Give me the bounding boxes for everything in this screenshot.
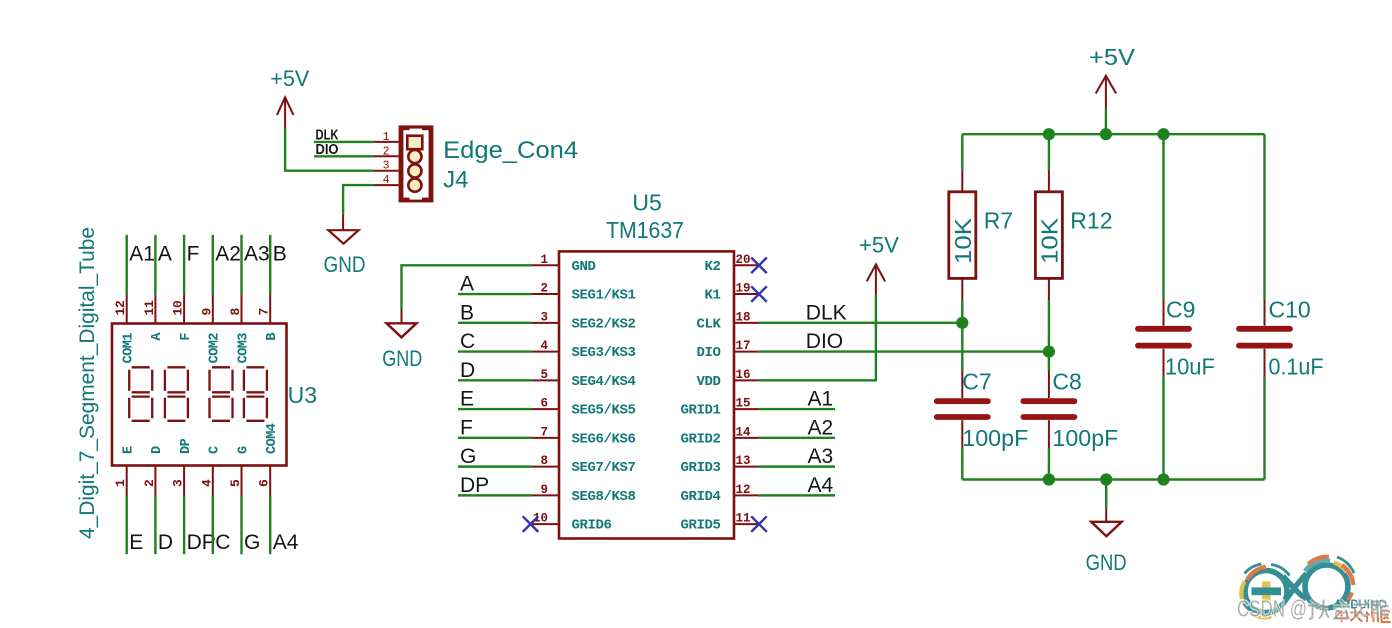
U5 pin 19 (K1) <box>734 293 759 295</box>
U3 7-segment digit 4 <box>244 367 267 421</box>
svg-text:3: 3 <box>540 310 548 324</box>
svg-text:2: 2 <box>142 479 157 487</box>
svg-text:4: 4 <box>199 479 214 487</box>
svg-text:10K: 10K <box>950 217 976 264</box>
resistor R12 10K <box>1048 170 1050 192</box>
U5 pin 7 (SEG6/KS6) <box>532 437 560 439</box>
wire +5V to J4 pin 3 <box>285 128 373 171</box>
svg-text:C8: C8 <box>1052 369 1081 395</box>
U5 pin 20 (K2) <box>734 264 759 266</box>
junction on top rail at +5V <box>1100 128 1112 140</box>
svg-text:12: 12 <box>113 300 128 316</box>
capacitor C8 100pF <box>1048 371 1050 399</box>
junction bottom rail at GND <box>1100 473 1112 485</box>
svg-text:18: 18 <box>736 310 751 324</box>
wire top rail to resistor R12 <box>1048 134 1050 170</box>
wire net DIO to J4 pin 2 <box>314 155 373 157</box>
U3 7-segment digit 2 <box>165 367 188 421</box>
svg-text:Edge_Con4: Edge_Con4 <box>443 137 578 164</box>
svg-text:GRID3: GRID3 <box>680 460 720 476</box>
J4 pin 4 <box>373 184 398 186</box>
wire top +5V rail <box>962 133 1264 135</box>
svg-text:DIO: DIO <box>696 345 720 361</box>
svg-text:SEG4/KS4: SEG4/KS4 <box>572 374 636 390</box>
power symbol +5V top right <box>1105 76 1107 109</box>
svg-text:16: 16 <box>736 368 751 382</box>
wire C10 to bottom rail <box>1263 377 1265 480</box>
wire C9 to bottom rail <box>1162 377 1164 480</box>
connector J4 body <box>401 128 431 200</box>
svg-text:1: 1 <box>113 479 128 487</box>
svg-text:A2: A2 <box>808 416 834 439</box>
svg-text:10uF: 10uF <box>1165 354 1215 380</box>
Arduino community logo plus sign <box>1262 582 1270 602</box>
svg-text:E: E <box>122 446 137 454</box>
U5 pin 17 (DIO) <box>734 351 759 353</box>
svg-text:C7: C7 <box>962 369 991 395</box>
svg-text:GND: GND <box>572 259 596 275</box>
U5 pin 11 (GRID5) <box>734 523 759 525</box>
Arduino community logo right loop <box>1305 556 1354 608</box>
no-connect U5 pin 19 <box>751 286 767 302</box>
ground symbol bottom right <box>1105 480 1107 510</box>
svg-text:C: C <box>215 531 230 554</box>
svg-text:1: 1 <box>540 253 548 267</box>
U5 pin 1 (GND) <box>532 264 560 266</box>
U5 pin 3 (SEG2/KS2) <box>532 322 560 324</box>
svg-text:D: D <box>158 531 173 554</box>
svg-text:GND: GND <box>1086 550 1127 575</box>
J4 pin 2 <box>373 155 398 157</box>
svg-text:B: B <box>460 301 474 324</box>
ground symbol below J4 <box>342 214 344 230</box>
svg-text:+5V: +5V <box>1089 44 1136 70</box>
resistor R7 10K <box>961 170 963 192</box>
svg-text:SEG2/KS2: SEG2/KS2 <box>572 316 636 332</box>
U3 pin 3 (DP) bottom <box>183 466 185 496</box>
wire net F to U3 pin 10 <box>183 235 185 295</box>
svg-text:J4: J4 <box>443 167 468 194</box>
svg-text:K1: K1 <box>704 288 720 304</box>
U3 pin 2 (D) bottom <box>154 466 156 496</box>
svg-text:U5: U5 <box>632 189 661 215</box>
svg-text:DIO: DIO <box>316 142 339 158</box>
svg-text:17: 17 <box>736 339 751 353</box>
svg-text:TM1637: TM1637 <box>606 217 684 243</box>
svg-text:1: 1 <box>383 131 390 144</box>
wire net C from U3 pin 4 <box>212 496 214 555</box>
svg-text:DP: DP <box>460 474 489 497</box>
U5 pin 12 (GRID4) <box>734 494 759 496</box>
display U3 body <box>112 324 287 466</box>
svg-text:3: 3 <box>171 479 186 487</box>
U3 pin 8 (COM3) top <box>241 295 243 324</box>
svg-text:R12: R12 <box>1070 207 1112 233</box>
svg-text:3: 3 <box>383 160 390 173</box>
wire U5 VDD pin 16 to +5V <box>759 295 876 381</box>
ground symbol for U5 pin 1 <box>401 309 403 323</box>
svg-text:4: 4 <box>540 339 548 353</box>
svg-text:CLK: CLK <box>696 316 721 332</box>
wire U5 pin 1 to GND <box>402 265 532 309</box>
svg-text:12: 12 <box>736 483 751 497</box>
svg-text:11: 11 <box>142 300 157 316</box>
wire top rail to C10 <box>1263 134 1265 299</box>
J4 pin 1 <box>373 141 398 143</box>
U3 pin 6 (COM4) bottom <box>269 466 271 496</box>
J4 pad pin 4 (circle) <box>408 179 421 192</box>
U3 pin 12 (COM1) top <box>126 295 128 324</box>
wire bottom GND rail <box>962 478 1264 480</box>
svg-text:C9: C9 <box>1166 296 1195 322</box>
svg-text:F: F <box>187 243 200 266</box>
wire net A1 to U3 pin 12 <box>125 235 127 295</box>
U3 7-segment digit 3 <box>210 367 233 421</box>
junction DLK at R7/C7 <box>956 317 968 329</box>
svg-text:DIO: DIO <box>806 330 843 353</box>
wire net DIO from U5 DIO pin 17 <box>759 350 1049 352</box>
wire net DLK to J4 pin 1 <box>314 141 373 143</box>
junction on top rail at C9 <box>1157 128 1169 140</box>
svg-text:A4: A4 <box>273 531 299 554</box>
svg-text:14: 14 <box>736 425 752 439</box>
wire net E from U3 pin 1 <box>125 496 127 555</box>
svg-text:DP: DP <box>187 531 216 554</box>
wire net A1 from U5 pin 15 <box>759 408 836 410</box>
svg-text:5: 5 <box>228 479 243 487</box>
wire net B to U5 pin 3 <box>458 322 532 324</box>
svg-text:4_Digit_7_Segment_Digital_Tube: 4_Digit_7_Segment_Digital_Tube <box>76 227 99 539</box>
svg-text:11: 11 <box>736 512 751 526</box>
wire net DP from U3 pin 3 <box>183 496 185 555</box>
svg-text:15: 15 <box>736 397 751 411</box>
svg-text:7: 7 <box>540 425 548 439</box>
svg-text:100pF: 100pF <box>962 425 1028 451</box>
wire net A2 to U3 pin 9 <box>212 235 214 295</box>
svg-text:R7: R7 <box>984 207 1013 233</box>
svg-text:10K: 10K <box>1036 217 1062 264</box>
svg-text:SEG8/KS8: SEG8/KS8 <box>572 489 636 505</box>
svg-text:+5V: +5V <box>859 233 899 258</box>
junction bottom rail at C8 <box>1043 473 1055 485</box>
J4 pin 3 <box>373 170 398 172</box>
svg-text:A4: A4 <box>808 474 834 497</box>
wire R12 to DIO junction <box>1048 300 1050 351</box>
svg-text:GRID6: GRID6 <box>572 518 612 534</box>
wire net F to U5 pin 7 <box>458 437 532 439</box>
svg-text:A1: A1 <box>808 388 834 411</box>
svg-text:F: F <box>460 416 473 439</box>
J4 pad pin 2 (circle) <box>408 150 421 163</box>
svg-text:K2: K2 <box>704 259 720 275</box>
junction DIO at R12/C8 <box>1043 345 1055 357</box>
wire net D from U3 pin 2 <box>154 496 156 555</box>
svg-text:CSDN @: CSDN @ <box>1237 596 1307 622</box>
svg-text:SEG7/KS7: SEG7/KS7 <box>572 460 636 476</box>
svg-text:COM4: COM4 <box>265 423 280 454</box>
svg-text:6: 6 <box>257 479 272 487</box>
U5 pin 10 (GRID6) <box>532 523 560 525</box>
wire net DP to U5 pin 9 <box>458 494 532 496</box>
svg-text:GRID5: GRID5 <box>680 518 720 534</box>
wire DLK junction down to C7 <box>961 323 963 371</box>
wire net E to U5 pin 6 <box>458 408 532 410</box>
U3 pin 4 (C) bottom <box>212 466 214 496</box>
wire net A to U5 pin 2 <box>458 293 532 295</box>
wire net A to U3 pin 11 <box>154 235 156 295</box>
svg-text:GRID1: GRID1 <box>680 403 720 419</box>
U5 pin 14 (GRID2) <box>734 437 759 439</box>
junction on top rail at R12 <box>1043 128 1055 140</box>
svg-text:GRID2: GRID2 <box>680 431 720 447</box>
wire DIO junction down to C8 <box>1048 352 1050 371</box>
svg-text:COM2: COM2 <box>208 333 223 364</box>
wire top rail to C9 <box>1162 134 1164 299</box>
svg-text:B: B <box>265 333 280 341</box>
wire C7 to bottom rail <box>961 448 963 480</box>
no-connect U5 pin 11 <box>751 516 767 532</box>
svg-text:DP: DP <box>179 438 194 454</box>
U5 pin 2 (SEG1/KS1) <box>532 293 560 295</box>
svg-text:SEG5/KS5: SEG5/KS5 <box>572 403 636 419</box>
wire net B to U3 pin 7 <box>269 235 271 295</box>
svg-text:DLK: DLK <box>806 301 847 324</box>
svg-text:A2: A2 <box>215 243 241 266</box>
svg-text:C10: C10 <box>1269 296 1311 322</box>
junction bottom rail at C9 <box>1157 473 1169 485</box>
svg-text:VDD: VDD <box>696 374 720 390</box>
svg-text:GRID4: GRID4 <box>680 489 720 505</box>
U5 pin 9 (SEG8/KS8) <box>532 494 560 496</box>
capacitor C7 100pF <box>961 371 963 399</box>
svg-text:2: 2 <box>383 145 390 158</box>
svg-text:F: F <box>179 333 194 341</box>
svg-text:20: 20 <box>736 253 751 267</box>
svg-text:COM3: COM3 <box>236 333 251 364</box>
U3 pin 5 (G) bottom <box>241 466 243 496</box>
svg-text:5: 5 <box>540 368 548 382</box>
U3 pin 1 (E) bottom <box>126 466 128 496</box>
no-connect U5 pin 10 <box>523 516 539 532</box>
wire net G to U5 pin 8 <box>458 465 532 467</box>
wire J4 pin 4 to GND <box>343 185 373 214</box>
svg-text:E: E <box>129 531 143 554</box>
U3 pin 10 (F) top <box>183 295 185 324</box>
capacitor C9 10uF <box>1163 300 1165 326</box>
svg-text:GND: GND <box>382 346 422 371</box>
wire net A4 from U5 pin 12 <box>759 494 836 496</box>
U3 7-segment digit 1 <box>129 367 152 421</box>
watermark CSDN @driver <box>1237 596 1389 622</box>
U5 pin 13 (GRID3) <box>734 466 759 468</box>
svg-text:A: A <box>460 273 474 296</box>
svg-text:GND: GND <box>324 252 366 277</box>
wire net A3 to U3 pin 8 <box>240 235 242 295</box>
svg-text:10: 10 <box>171 300 186 316</box>
U5 pin 6 (SEG5/KS5) <box>532 408 560 410</box>
svg-text:6: 6 <box>540 397 548 411</box>
U5 pin 8 (SEG7/KS7) <box>532 466 560 468</box>
svg-text:0.1uF: 0.1uF <box>1269 354 1324 380</box>
svg-text:E: E <box>460 388 474 411</box>
wire net DLK from U5 CLK pin 18 <box>759 322 963 324</box>
svg-text:SEG3/KS3: SEG3/KS3 <box>572 345 636 361</box>
svg-text:SEG6/KS6: SEG6/KS6 <box>572 431 636 447</box>
svg-text:19: 19 <box>736 282 751 296</box>
svg-text:G: G <box>236 446 251 454</box>
wire net D to U5 pin 5 <box>458 379 532 381</box>
wire top rail to resistor R7 <box>961 134 963 170</box>
wire net G from U3 pin 5 <box>240 496 242 555</box>
svg-text:C: C <box>460 330 475 353</box>
svg-text:9: 9 <box>540 483 548 497</box>
wire net A4 from U3 pin 6 <box>269 496 271 555</box>
U5 pin 18 (CLK) <box>734 322 759 324</box>
svg-text:2: 2 <box>540 282 548 296</box>
svg-text:A3: A3 <box>244 243 270 266</box>
svg-text:8: 8 <box>540 454 548 468</box>
wire net A2 from U5 pin 14 <box>759 437 836 439</box>
wire net A3 from U5 pin 13 <box>759 465 836 467</box>
svg-text:COM1: COM1 <box>122 333 137 364</box>
J4 pad pin 1 (square) <box>407 136 422 150</box>
wire +5V stem to top rail <box>1105 109 1107 134</box>
IC U5 body <box>559 251 734 538</box>
wire R7 to DLK junction <box>961 300 963 322</box>
J4 pad pin 3 (circle) <box>408 164 421 177</box>
wire net C to U5 pin 4 <box>458 350 532 352</box>
svg-text:D: D <box>460 359 475 382</box>
svg-text:100pF: 100pF <box>1052 425 1118 451</box>
svg-text:7: 7 <box>257 308 272 316</box>
power symbol +5V at J4 <box>284 97 286 128</box>
U3 pin 11 (A) top <box>154 295 156 324</box>
svg-text:13: 13 <box>736 454 751 468</box>
Arduino community logo left loop <box>1241 564 1289 618</box>
U5 pin 16 (VDD) <box>734 379 759 381</box>
U5 pin 15 (GRID1) <box>734 408 759 410</box>
wire C8 to bottom rail <box>1048 448 1050 480</box>
svg-text:U3: U3 <box>288 382 317 408</box>
svg-text:+5V: +5V <box>270 66 309 91</box>
U3 pin 7 (B) top <box>269 295 271 324</box>
svg-text:G: G <box>244 531 260 554</box>
U5 pin 5 (SEG4/KS4) <box>532 379 560 381</box>
svg-text:A3: A3 <box>808 445 834 468</box>
svg-text:D: D <box>150 446 165 454</box>
logo text 中文社区 (drawn) <box>1336 611 1391 623</box>
svg-text:C: C <box>208 446 223 454</box>
U5 pin 4 (SEG3/KS3) <box>532 351 560 353</box>
power symbol +5V at U5 VDD <box>875 264 877 294</box>
svg-text:9: 9 <box>199 308 214 316</box>
svg-text:A1: A1 <box>129 243 155 266</box>
svg-text:4: 4 <box>383 174 390 187</box>
svg-text:SEG1/KS1: SEG1/KS1 <box>572 288 636 304</box>
svg-text:B: B <box>273 243 287 266</box>
svg-text:8: 8 <box>228 308 243 316</box>
no-connect U5 pin 20 <box>751 258 767 274</box>
svg-text:G: G <box>460 445 476 468</box>
svg-text:A: A <box>158 243 172 266</box>
Arduino community logo crossing strokes <box>1283 574 1307 602</box>
U3 pin 9 (COM2) top <box>212 295 214 324</box>
capacitor C10 0.1uF <box>1264 300 1266 326</box>
